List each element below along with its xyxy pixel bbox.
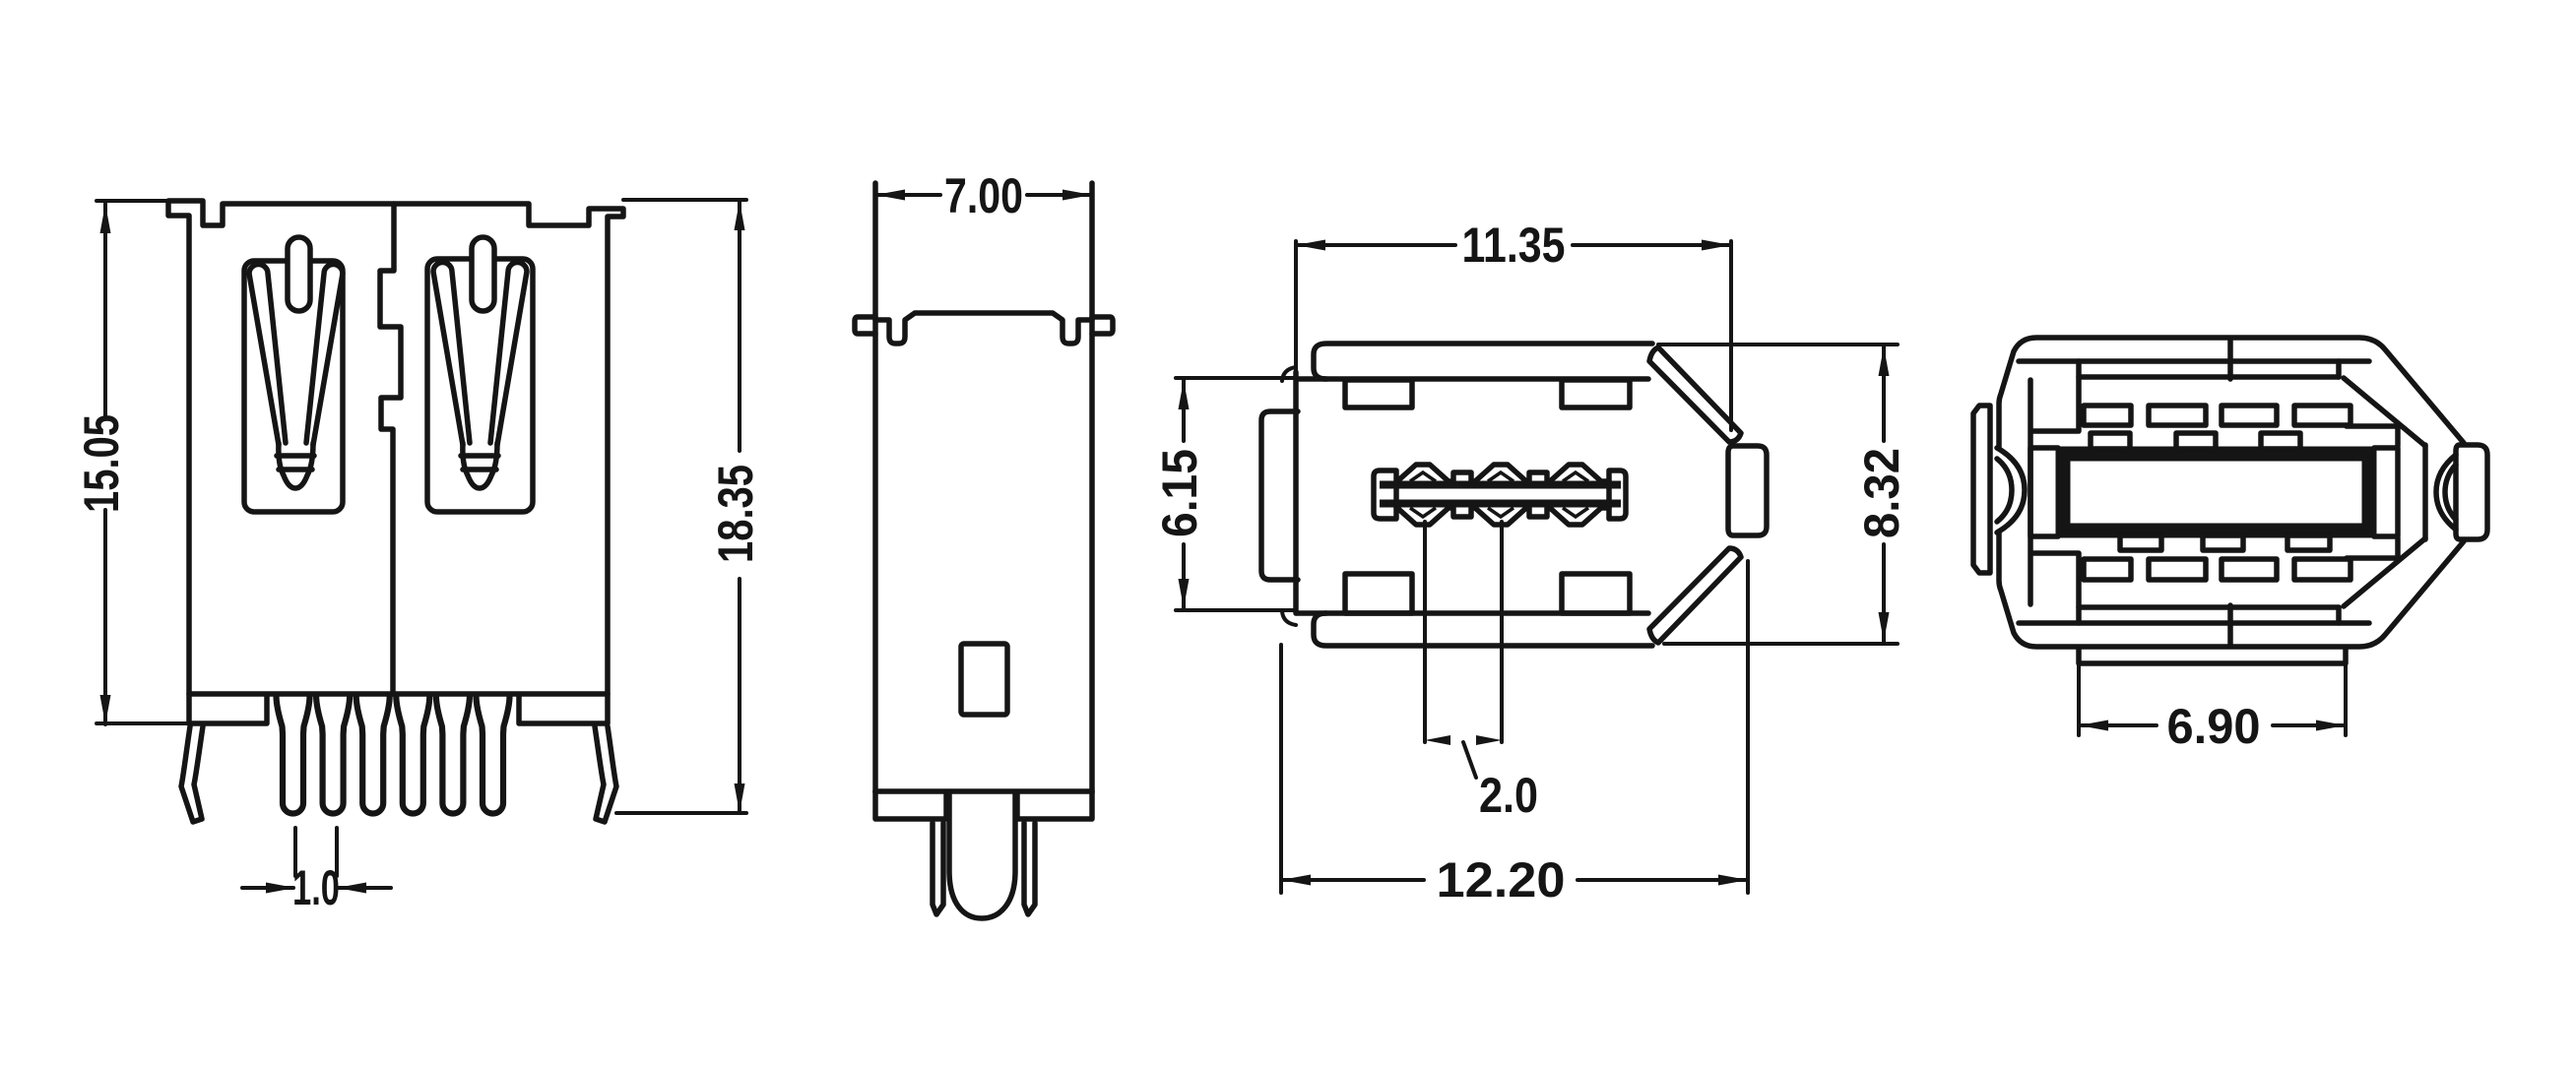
bottom flange left segment	[189, 694, 267, 723]
dimension 12.20	[1281, 561, 1748, 893]
left slot oval hole	[288, 237, 310, 311]
left contact fork	[249, 265, 286, 446]
bottom flange right	[1017, 791, 1092, 819]
pin 2	[316, 696, 350, 814]
connector front view: outer shell outline	[168, 201, 623, 694]
right slot oval hole	[472, 237, 494, 311]
top cap band	[1314, 344, 1652, 379]
left slot opening	[244, 261, 343, 512]
dimension 2.0 with leader	[1425, 522, 1502, 742]
rear nose block right	[2456, 445, 2487, 539]
svg-text:6.15: 6.15	[1152, 449, 1207, 537]
inner rect B	[1562, 380, 1630, 407]
left collar around center rect	[2030, 448, 2058, 536]
dimension 6.15	[1176, 378, 1296, 610]
left contact tip bulb	[279, 443, 313, 488]
pin 3	[356, 696, 390, 814]
dimension 6.90	[2079, 665, 2346, 735]
pin 1	[277, 696, 310, 814]
pin 6	[477, 696, 510, 814]
center seam with interlock jogs	[380, 204, 401, 694]
side view top profile with grooves	[875, 313, 1092, 344]
pin 4	[396, 696, 429, 814]
svg-text:12.20: 12.20	[1437, 852, 1566, 908]
bottom chamfer strip	[1649, 548, 1741, 643]
bottom flange right segment	[519, 694, 608, 723]
band-to-edge curls	[1282, 367, 1296, 625]
thin leg right	[1024, 823, 1035, 914]
left outer tab	[1973, 406, 1990, 573]
body top edge	[1297, 376, 1648, 382]
cap seam tick bottom	[2227, 605, 2233, 646]
svg-text:11.35: 11.35	[1462, 218, 1566, 273]
svg-text:7.00: 7.00	[944, 168, 1023, 223]
right ear tab	[1092, 317, 1113, 334]
top chamfer strip	[1649, 347, 1741, 442]
contact bar left cap	[1374, 470, 1396, 519]
right contact fork	[433, 263, 470, 446]
side window rectangle	[961, 644, 1007, 715]
svg-text:2.0: 2.0	[1479, 768, 1538, 823]
svg-text:8.32: 8.32	[1854, 448, 1909, 538]
cap seam tick top	[2227, 339, 2233, 379]
left crescent	[1997, 448, 2025, 532]
right crescent	[2436, 455, 2456, 530]
contact bar right cap	[1609, 470, 1626, 519]
inner cap line bottom	[2019, 620, 2369, 626]
inner rect D	[1562, 574, 1630, 613]
left flange bump	[1261, 411, 1298, 580]
extension right for 11.35	[1729, 241, 1733, 430]
foot strip	[2079, 648, 2346, 663]
nose block	[1728, 446, 1767, 535]
bottom cap band	[1314, 613, 1652, 646]
thin leg left	[933, 823, 943, 914]
inner shell line bottom	[2079, 604, 2339, 610]
side view: left outline / extension	[872, 183, 878, 792]
svg-text:6.90: 6.90	[2167, 699, 2261, 754]
body bottom edge	[1297, 610, 1648, 616]
right step blocks	[2347, 426, 2398, 558]
side view bottom edge	[875, 788, 1092, 794]
extension / body left edge	[1294, 241, 1298, 376]
inner cap line top	[2019, 358, 2369, 364]
left ear tab	[855, 317, 875, 334]
upper far row rects	[2084, 406, 2131, 425]
dimension 8.32	[1658, 345, 1898, 644]
center solder tab	[949, 792, 1015, 918]
svg-text:18.35: 18.35	[708, 465, 763, 563]
lower near row rects	[2120, 535, 2161, 550]
side view: right outline / extension	[1089, 183, 1095, 792]
rear view outer shell	[1999, 338, 2464, 647]
svg-text:15.05: 15.05	[74, 414, 129, 513]
right slot opening	[427, 259, 533, 512]
lower far row rects	[2084, 559, 2131, 580]
inner rect C	[1345, 574, 1412, 613]
right mounting leg	[595, 726, 616, 822]
dimension 7.00	[878, 193, 1089, 197]
inner shell line top	[2079, 374, 2339, 380]
dimension 15.05	[97, 201, 187, 723]
right contact tip bulb	[463, 443, 497, 488]
center thick rectangle	[2063, 454, 2369, 531]
left mounting leg	[181, 726, 203, 822]
upper near row rects	[2091, 433, 2130, 449]
inner right step profile	[2336, 361, 2342, 623]
inner rect A	[1345, 380, 1412, 407]
dimension 18.35	[616, 200, 746, 813]
inner left step profile	[2030, 361, 2079, 623]
svg-text:1.0: 1.0	[292, 860, 340, 915]
inner chamfer diagonals right	[2344, 378, 2425, 606]
contact bar tent inner chevrons	[1410, 472, 1436, 517]
dimension 11.35	[1298, 243, 1729, 247]
pin 5	[436, 696, 470, 814]
contact bar bottom outline with tents	[1396, 508, 1609, 525]
inner nose vertical	[2422, 445, 2428, 539]
bottom flange left	[875, 791, 946, 819]
dimension 1.0	[295, 828, 337, 876]
contact bar mid bands	[1380, 485, 1621, 504]
contact bar top outline with tents	[1396, 465, 1609, 481]
right collar around center rect	[2374, 448, 2398, 536]
